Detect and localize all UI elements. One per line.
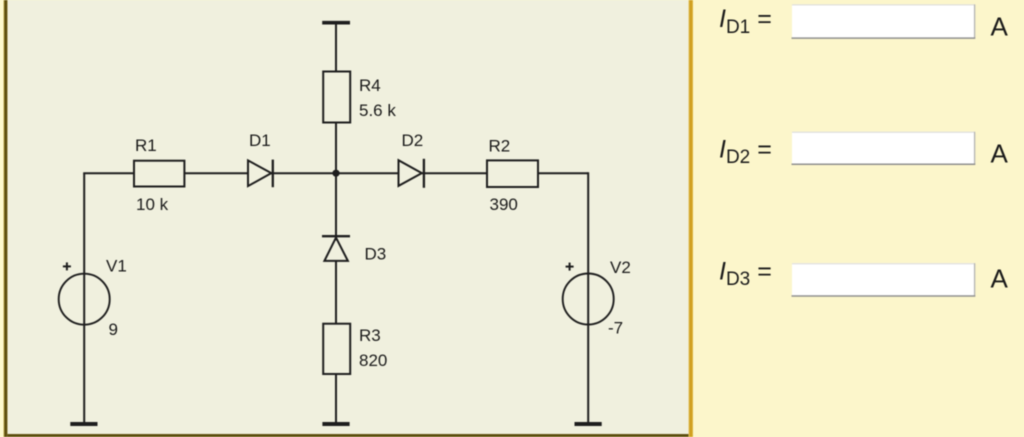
svg-text:V1: V1: [106, 256, 127, 275]
voltage source V1: [59, 274, 110, 325]
wire: D2 to R2: [422, 172, 487, 174]
ground (V2 branch): [575, 422, 602, 426]
resistor R2: [487, 160, 538, 187]
wire: R4 to node: [335, 123, 337, 174]
node (center junction): [332, 170, 339, 177]
wire: node to D2: [336, 172, 399, 174]
svg-text:D1: D1: [249, 131, 271, 150]
svg-text:A: A: [991, 12, 1009, 42]
svg-text:9: 9: [109, 320, 118, 339]
diode D1: [248, 160, 273, 188]
svg-text:D3: D3: [365, 244, 387, 263]
voltage source V2: [563, 274, 614, 325]
ground (V1 branch): [70, 422, 97, 426]
svg-text:D2: D2: [402, 131, 424, 150]
answer row 1: I_D1: [719, 4, 1009, 41]
answer row 3: I_D3: [719, 258, 1009, 296]
polarity + of V1: [63, 262, 71, 270]
wire: terminal to R4: [335, 24, 337, 72]
wire: node down to D3: [335, 173, 337, 240]
diode D3 (cathode bar + triangle, pointing up): [322, 236, 350, 261]
svg-text:10 k: 10 k: [136, 195, 169, 214]
wire: D1 to node: [271, 172, 336, 174]
svg-text:820: 820: [359, 351, 387, 370]
supply terminal (top bar): [322, 21, 350, 25]
wire: R2 to top-right corner: [538, 172, 588, 174]
svg-text:390: 390: [490, 195, 518, 214]
svg-text:R2: R2: [489, 136, 511, 155]
svg-text:R1: R1: [135, 136, 157, 155]
wire: left branch vertical (V1 to top-left corner): [83, 173, 85, 423]
resistor R3: [323, 324, 350, 374]
resistor R4: [323, 72, 350, 123]
svg-text:5.6 k: 5.6 k: [359, 101, 396, 120]
wire: R3 to ground: [335, 374, 337, 423]
wire: top-left corner to R1: [83, 172, 134, 174]
resistor R1: [134, 161, 184, 187]
svg-text:-7: -7: [608, 319, 623, 338]
ground (center branch): [322, 422, 349, 426]
svg-text:V2: V2: [610, 258, 631, 277]
svg-text:R4: R4: [359, 76, 381, 95]
wire: R1 to D1: [184, 172, 248, 174]
svg-text:A: A: [991, 264, 1009, 294]
svg-text:R3: R3: [359, 326, 381, 345]
wire: right branch vertical (corner through V2 to ground): [587, 172, 589, 423]
input field I_D3: [792, 263, 976, 296]
input field I_D2: [792, 132, 976, 164]
svg-text:A: A: [991, 139, 1009, 169]
polarity + of V2: [566, 263, 574, 271]
wire: D3 to R3: [335, 261, 337, 324]
answer row 2: I_D2: [719, 132, 1009, 169]
input field I_D1: [792, 4, 976, 38]
diode D2: [399, 159, 424, 188]
